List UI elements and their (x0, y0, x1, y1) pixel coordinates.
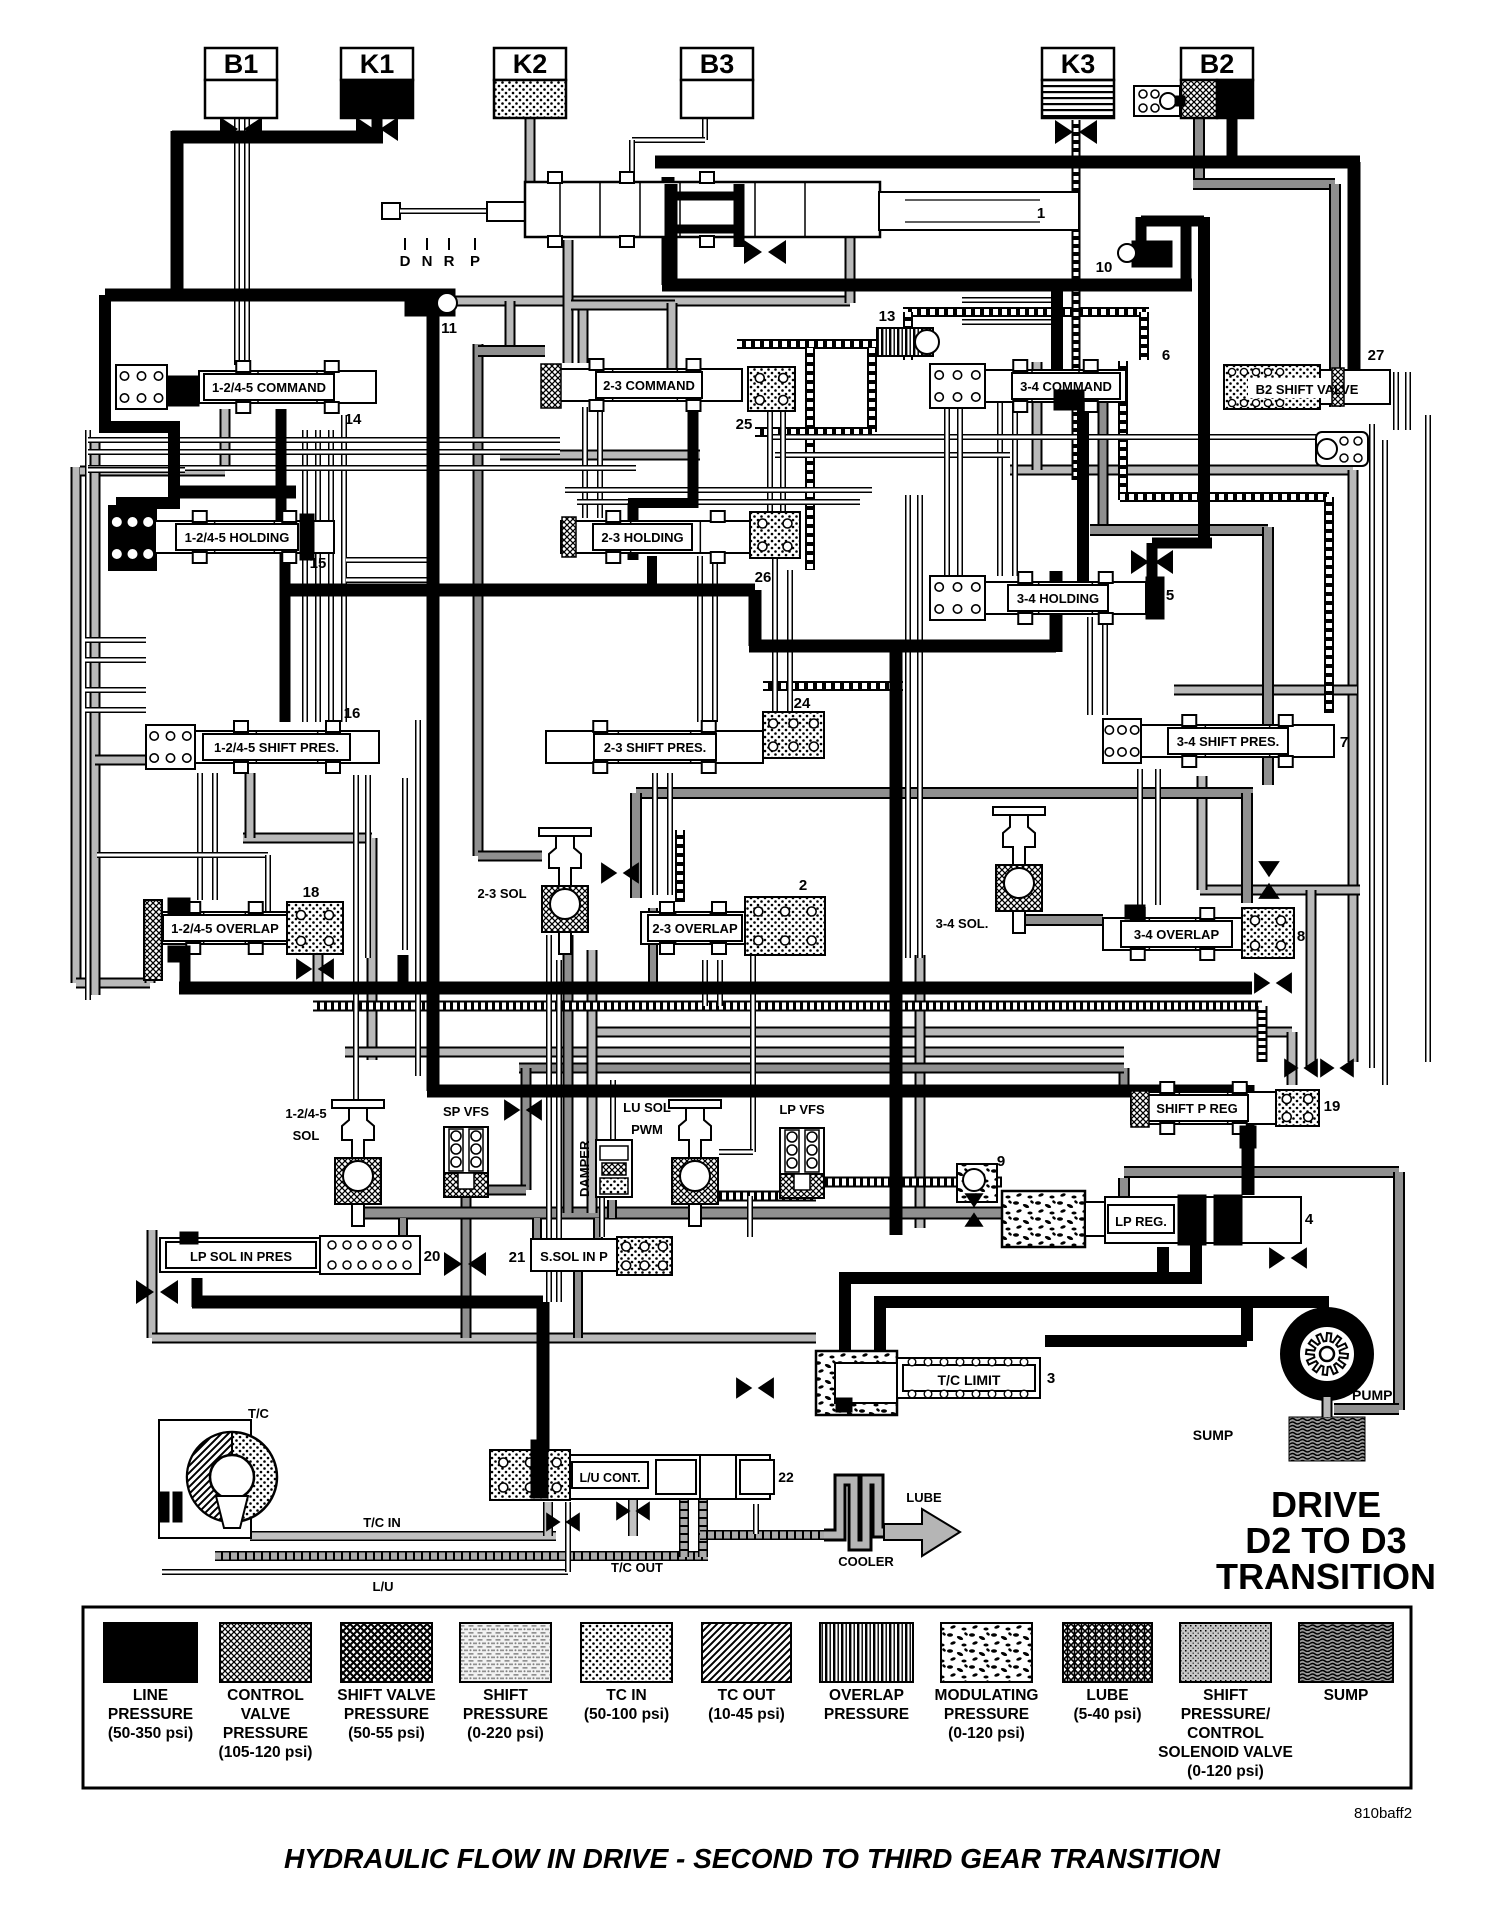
svg-text:PRESSURE: PRESSURE (344, 1706, 429, 1723)
svg-text:DAMPER: DAMPER (577, 1140, 592, 1197)
svg-text:3-4 HOLDING: 3-4 HOLDING (1017, 591, 1099, 606)
svg-text:14: 14 (345, 411, 362, 428)
svg-text:2-3 HOLDING: 2-3 HOLDING (601, 530, 683, 545)
svg-text:SP VFS: SP VFS (443, 1104, 489, 1119)
svg-text:LP REG.: LP REG. (1115, 1214, 1167, 1229)
svg-text:PWM: PWM (631, 1122, 663, 1137)
svg-text:B1: B1 (224, 49, 259, 79)
svg-text:PRESSURE: PRESSURE (824, 1706, 909, 1723)
svg-text:1-2/4-5 HOLDING: 1-2/4-5 HOLDING (185, 530, 290, 545)
svg-text:SUMP: SUMP (1324, 1687, 1369, 1704)
svg-text:PRESSURE: PRESSURE (944, 1706, 1029, 1723)
svg-text:(50-55 psi): (50-55 psi) (348, 1725, 425, 1742)
svg-text:(50-350 psi): (50-350 psi) (108, 1725, 193, 1742)
svg-text:13: 13 (879, 308, 896, 325)
svg-text:T/C: T/C (248, 1406, 270, 1421)
svg-text:3-4 SOL.: 3-4 SOL. (936, 916, 989, 931)
svg-text:2-3 COMMAND: 2-3 COMMAND (603, 378, 695, 393)
svg-text:L/U CONT.: L/U CONT. (579, 1471, 640, 1485)
svg-text:K1: K1 (360, 49, 395, 79)
svg-text:T/C IN: T/C IN (363, 1515, 401, 1530)
svg-text:(5-40 psi): (5-40 psi) (1073, 1706, 1141, 1723)
svg-text:LUBE: LUBE (906, 1490, 942, 1505)
svg-text:10: 10 (1096, 259, 1113, 276)
svg-text:(10-45 psi): (10-45 psi) (708, 1706, 785, 1723)
svg-text:B2 SHIFT VALVE: B2 SHIFT VALVE (1256, 382, 1359, 397)
svg-text:2-3 SOL: 2-3 SOL (477, 886, 526, 901)
svg-text:1-2/4-5 SHIFT PRES.: 1-2/4-5 SHIFT PRES. (214, 740, 339, 755)
svg-text:CONTROL: CONTROL (227, 1687, 304, 1704)
svg-text:4: 4 (1305, 1211, 1314, 1228)
svg-text:SUMP: SUMP (1193, 1427, 1233, 1443)
svg-text:PRESSURE: PRESSURE (223, 1725, 308, 1742)
svg-text:COOLER: COOLER (838, 1554, 894, 1569)
svg-text:2-3 OVERLAP: 2-3 OVERLAP (652, 921, 738, 936)
svg-text:DRIVE: DRIVE (1271, 1484, 1381, 1525)
svg-text:24: 24 (794, 695, 811, 712)
svg-text:PRESSURE: PRESSURE (108, 1706, 193, 1723)
svg-text:N: N (422, 253, 433, 270)
svg-text:L/U: L/U (373, 1579, 394, 1594)
svg-text:LU SOL: LU SOL (623, 1100, 671, 1115)
svg-text:PRESSURE: PRESSURE (463, 1706, 548, 1723)
svg-text:5: 5 (1166, 587, 1174, 604)
svg-text:26: 26 (755, 569, 772, 586)
svg-text:PUMP: PUMP (1352, 1387, 1392, 1403)
svg-text:LINE: LINE (133, 1687, 168, 1704)
svg-text:2: 2 (799, 877, 807, 894)
svg-text:3: 3 (1047, 1370, 1055, 1387)
svg-text:LUBE: LUBE (1086, 1687, 1128, 1704)
svg-text:VALVE: VALVE (241, 1706, 290, 1723)
svg-text:CONTROL: CONTROL (1187, 1725, 1264, 1742)
svg-text:SHIFT: SHIFT (483, 1687, 528, 1704)
svg-text:3-4 SHIFT PRES.: 3-4 SHIFT PRES. (1177, 734, 1280, 749)
svg-text:LP SOL IN PRES: LP SOL IN PRES (190, 1249, 292, 1264)
svg-text:MODULATING: MODULATING (935, 1687, 1039, 1704)
svg-text:7: 7 (1340, 734, 1348, 751)
svg-text:T/C OUT: T/C OUT (611, 1560, 663, 1575)
svg-text:TC OUT: TC OUT (718, 1687, 776, 1704)
svg-text:8: 8 (1297, 928, 1305, 945)
svg-text:27: 27 (1368, 347, 1385, 364)
svg-text:(50-100 psi): (50-100 psi) (584, 1706, 669, 1723)
svg-text:9: 9 (997, 1153, 1005, 1170)
svg-text:15: 15 (310, 555, 327, 572)
svg-text:HYDRAULIC FLOW IN DRIVE - SECO: HYDRAULIC FLOW IN DRIVE - SECOND TO THIR… (284, 1843, 1221, 1874)
svg-text:SHIFT VALVE: SHIFT VALVE (337, 1687, 435, 1704)
svg-text:D2 TO D3: D2 TO D3 (1245, 1520, 1406, 1561)
svg-text:K3: K3 (1061, 49, 1096, 79)
svg-text:LP VFS: LP VFS (779, 1102, 825, 1117)
svg-text:810baff2: 810baff2 (1354, 1805, 1412, 1822)
svg-text:B2: B2 (1200, 49, 1235, 79)
svg-text:PRESSURE/: PRESSURE/ (1181, 1706, 1271, 1723)
svg-text:S.SOL IN P: S.SOL IN P (540, 1249, 608, 1264)
svg-text:6: 6 (1162, 347, 1170, 364)
svg-text:R: R (444, 253, 455, 270)
svg-text:1-2/4-5: 1-2/4-5 (285, 1106, 326, 1121)
svg-text:B3: B3 (700, 49, 735, 79)
svg-text:TRANSITION: TRANSITION (1216, 1556, 1436, 1597)
svg-text:SHIFT P REG: SHIFT P REG (1156, 1101, 1237, 1116)
svg-text:D: D (400, 253, 411, 270)
svg-text:T/C LIMIT: T/C LIMIT (938, 1372, 1001, 1388)
svg-text:SOLENOID VALVE: SOLENOID VALVE (1158, 1744, 1293, 1761)
svg-text:P: P (470, 253, 480, 270)
svg-text:21: 21 (509, 1249, 526, 1266)
svg-text:(105-120 psi): (105-120 psi) (219, 1744, 313, 1761)
svg-text:18: 18 (303, 884, 320, 901)
svg-text:16: 16 (344, 705, 361, 722)
svg-text:(0-120 psi): (0-120 psi) (948, 1725, 1025, 1742)
svg-text:25: 25 (736, 416, 753, 433)
svg-text:1-2/4-5 OVERLAP: 1-2/4-5 OVERLAP (171, 921, 279, 936)
svg-text:(0-220 psi): (0-220 psi) (467, 1725, 544, 1742)
svg-text:19: 19 (1324, 1098, 1341, 1115)
svg-text:2-3 SHIFT PRES.: 2-3 SHIFT PRES. (604, 740, 707, 755)
svg-text:SHIFT: SHIFT (1203, 1687, 1248, 1704)
svg-text:TC IN: TC IN (606, 1687, 646, 1704)
svg-text:11: 11 (441, 320, 457, 337)
svg-text:3-4 OVERLAP: 3-4 OVERLAP (1134, 927, 1220, 942)
svg-text:SOL: SOL (293, 1128, 320, 1143)
svg-text:20: 20 (424, 1248, 441, 1265)
svg-text:1-2/4-5 COMMAND: 1-2/4-5 COMMAND (212, 380, 326, 395)
svg-text:OVERLAP: OVERLAP (829, 1687, 904, 1704)
svg-text:(0-120 psi): (0-120 psi) (1187, 1763, 1264, 1780)
svg-text:22: 22 (778, 1469, 794, 1485)
svg-text:1: 1 (1037, 205, 1045, 222)
svg-text:K2: K2 (513, 49, 548, 79)
